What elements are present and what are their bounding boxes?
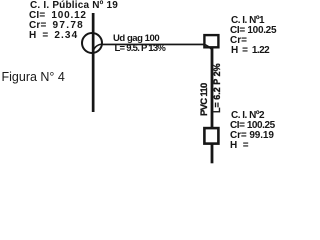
label chamber 1 CI value — [230, 26, 276, 36]
label chamber 19 title — [30, 1, 118, 11]
label chamber 1 H value — [231, 46, 269, 56]
label chamber 1 title — [231, 16, 264, 26]
node chamber CI N2 (square) — [204, 128, 218, 144]
inspection chamber circle CI Publica N 19 — [82, 33, 102, 53]
label chamber 19 CI value — [29, 11, 87, 21]
node chamber CI N1 (square) — [204, 35, 218, 47]
wire: horizontal pipe from chamber 19 to chamber 1 — [102, 44, 206, 46]
label vertical pipe material PVC 110 (rotated) — [201, 83, 210, 116]
label chamber 2 CI value — [230, 121, 275, 131]
wire: vertical inlet pipe through chamber 19 — [92, 13, 95, 112]
label chamber 19 H value — [29, 31, 78, 41]
label chamber 2 H value — [230, 141, 249, 151]
label horizontal pipe material — [113, 34, 159, 44]
label chamber 2 title — [231, 111, 264, 121]
label horizontal pipe length and slope — [115, 44, 166, 54]
label chamber 1 Cr value — [230, 36, 247, 46]
wire: outlet pipe below chamber 2 — [211, 144, 214, 163]
label chamber 2 Cr value — [230, 131, 274, 141]
label chamber 19 Cr value — [29, 21, 84, 31]
channel arc inside circle — [93, 44, 102, 53]
channel arc inside chamber 1 — [205, 45, 211, 49]
figure caption — [2, 70, 65, 84]
wire: vertical pipe chamber 1 to chamber 2 — [211, 48, 214, 128]
label vertical pipe length and slope (rotated) — [213, 63, 222, 113]
